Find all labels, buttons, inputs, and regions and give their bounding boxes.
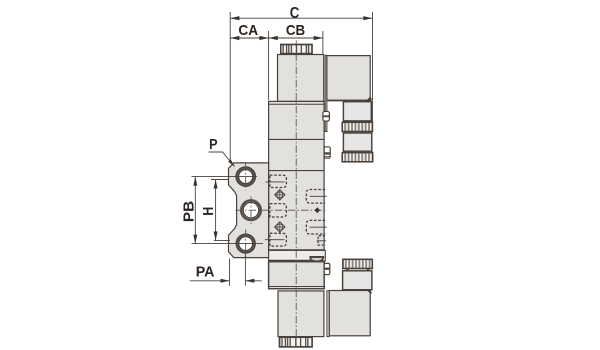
- ribbed band 2: [342, 153, 372, 162]
- clip tab top bar: [310, 256, 323, 258]
- dashed passage slot P (mid-left): [270, 204, 287, 217]
- PB arrow up: [193, 177, 197, 186]
- solenoid coil block top: [278, 55, 324, 102]
- dashed passage slot B (bottom-left): [270, 233, 287, 246]
- ribbed band 1: [342, 122, 372, 131]
- manual override knob top (ribbed): [281, 45, 312, 54]
- extension line body-left (CA/CB boundary): [268, 31, 270, 100]
- strip inner line: [269, 259, 311, 261]
- P leader arrow: [228, 159, 235, 167]
- port P2 (middle) outer ring: [240, 200, 261, 221]
- port mounting plate: [229, 163, 269, 258]
- H lower tick: [214, 240, 230, 242]
- main vertical centerline through solenoids: [295, 41, 297, 251]
- PA dim line right tail: [245, 280, 261, 282]
- bottom housing corner notch: [367, 290, 372, 293]
- connector housing block top: [327, 56, 370, 101]
- extension line left (plate face, for C/CA): [229, 12, 231, 162]
- dimension C arrow right: [363, 16, 372, 20]
- dimension PB line: [194, 177, 196, 244]
- bottom solenoid coil block: [278, 291, 324, 337]
- dimension CA arrow right: [259, 36, 268, 40]
- coil flange strip: [324, 55, 328, 131]
- fitting nub 3 right: [324, 263, 330, 274]
- H arrow up: [214, 180, 218, 189]
- small dashed port square bottom-right: [318, 236, 325, 245]
- housing corner notch: [367, 96, 372, 100]
- dimension CA line: [230, 37, 268, 39]
- dashed pilot slot upper-right: [306, 190, 325, 204]
- base strip under body: [269, 250, 326, 261]
- dashed pilot slot lower-right: [306, 220, 325, 234]
- bottom connector housing block: [329, 291, 370, 336]
- bottom connector ribbed band: [343, 259, 372, 268]
- valve body main: [269, 101, 325, 250]
- H upper tick: [211, 179, 229, 181]
- body bottom thick edge: [269, 249, 325, 251]
- bottom band feet: [346, 269, 349, 271]
- svg-text:PB: PB: [180, 201, 197, 222]
- fitting nub 2 right: [324, 147, 330, 158]
- dashed passage slot A (top-left): [270, 175, 287, 187]
- body inner line 1: [269, 103, 325, 105]
- svg-text:PA: PA: [196, 263, 215, 280]
- svg-text:P: P: [209, 136, 217, 153]
- band1 feet: [346, 120, 349, 122]
- pilot slot lower centerline: [310, 226, 327, 228]
- pilot slot upper centerline: [310, 195, 327, 197]
- adapter double bottom line: [269, 286, 325, 288]
- manual override knob bottom (ribbed): [280, 337, 313, 347]
- port P1 (top) outer ring: [236, 167, 255, 186]
- its centerline: [317, 240, 326, 242]
- dimension PA extension line left (plate face): [229, 259, 231, 286]
- mounting screw symbol 1: [275, 190, 286, 201]
- bottom port horizontal centerline / PB lower tick: [192, 243, 264, 245]
- dimension H line: [215, 180, 217, 241]
- small diamond on centerline: [315, 207, 320, 213]
- bottom coil flange strip: [327, 291, 329, 337]
- mounting screw symbol 2: [275, 222, 286, 233]
- fitting nub 1 right: [323, 111, 330, 121]
- bottom connector block: [343, 271, 372, 290]
- svg-text:CB: CB: [286, 22, 305, 39]
- slot B centerline: [265, 239, 285, 241]
- H arrow down: [214, 232, 218, 241]
- dimension CA arrow left: [230, 36, 239, 40]
- main horizontal centerline: [236, 209, 327, 211]
- port centerline vertical top: [236, 41, 327, 258]
- housing block bottom heavy edge: [327, 100, 371, 102]
- connector block 2: [343, 133, 371, 151]
- dimension C arrow left: [230, 16, 239, 20]
- svg-text:CA: CA: [238, 22, 258, 39]
- P leader line: [209, 152, 235, 167]
- PA dim line left tail: [190, 280, 230, 282]
- svg-text:H: H: [200, 207, 217, 216]
- extension line coil-right (CB): [322, 31, 324, 54]
- port centerline vertical middle: [250, 197, 252, 225]
- port P3 (bottom) outer ring: [236, 234, 255, 253]
- PA arrow right (pointing left): [245, 279, 254, 283]
- body inner line 2: [269, 138, 325, 140]
- top port horizontal centerline / PB upper tick: [192, 176, 258, 178]
- main vertical centerline bottom part: [295, 250, 297, 347]
- dimension CB line: [269, 37, 323, 39]
- slot A centerline: [266, 181, 285, 183]
- dimension CB arrow right: [314, 36, 323, 40]
- bottom adapter block: [269, 262, 325, 289]
- extension line far right (C): [372, 12, 374, 122]
- PB arrow down: [193, 235, 197, 244]
- connector block 1 (top stack): [343, 102, 371, 121]
- svg-text:C: C: [290, 5, 300, 22]
- port centerline vertical bottom: [245, 230, 247, 258]
- body inner line 3: [269, 170, 325, 172]
- PA arrow left (pointing right): [221, 279, 230, 283]
- dimension C line: [230, 17, 372, 19]
- dimension PA extension line right (port axis): [244, 251, 246, 286]
- dimension CB arrow left: [269, 36, 278, 40]
- clip tab (dark half oval): [310, 257, 323, 262]
